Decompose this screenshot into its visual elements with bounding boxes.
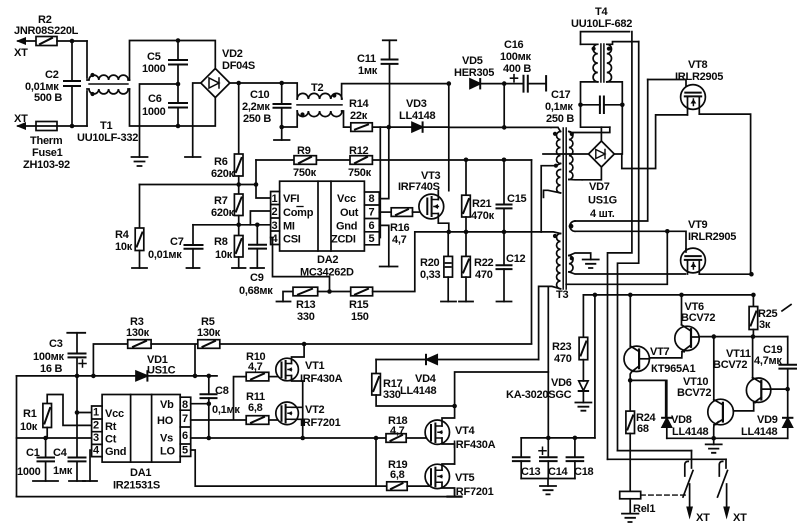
svg-text:C4: C4 [53,447,68,459]
svg-text:4,7: 4,7 [392,234,407,246]
wire VT7 emitter to VD8 [630,380,666,417]
svg-text:T1: T1 [100,120,112,132]
svg-text:Comp: Comp [283,207,314,219]
capacitor C1 [17,438,58,481]
wire Vcc bus to T3 feed [372,159,531,161]
node VT1/VT2 mid on Vs [300,436,305,441]
diode VD3 [399,98,449,132]
resistor R10 [246,351,281,381]
svg-text:UU10LF-682: UU10LF-682 [571,18,632,30]
rectifier bridge VD2 [201,48,255,98]
svg-text:Fuse1: Fuse1 [32,147,63,159]
svg-text:US1C: US1C [147,365,176,377]
capacitor C10 [242,81,291,140]
wire T4 right-bottom to VD7 right vertex [614,105,622,154]
svg-text:DA2: DA2 [317,254,338,266]
capacitor C6 [142,84,187,126]
resistor R17 [372,360,455,407]
svg-text:IRF430A: IRF430A [453,439,496,451]
wire pin4 Gnd [90,450,92,481]
wire pin8 Vcc riser [379,127,389,199]
svg-text:LL4148: LL4148 [400,385,437,397]
wire R5 to half-bridge top line [220,343,532,345]
svg-text:UU10LF-332: UU10LF-332 [77,132,138,144]
svg-text:250 В: 250 В [243,113,271,125]
transistor VT9 MOSFET [681,219,737,274]
wire source node line [449,231,541,233]
svg-text:470: 470 [475,269,493,281]
svg-text:LL4148: LL4148 [672,426,709,438]
svg-text:330: 330 [297,311,315,323]
node C6 bottom [176,124,181,129]
svg-text:C14: C14 [548,466,569,478]
svg-text:1мк: 1мк [53,465,73,477]
wire pin6 Vs line [191,437,386,439]
node bottom-left junction [70,124,75,129]
svg-text:1000: 1000 [142,106,166,118]
svg-text:VD5: VD5 [462,55,483,67]
resistor R22 [459,232,494,302]
wire pin2 Comp [250,211,270,225]
svg-text:T4: T4 [595,6,608,18]
node L1 feed [502,125,507,130]
svg-text:4,7мк: 4,7мк [754,355,782,367]
svg-text:R12: R12 [349,145,369,157]
rail from T4 mid down to VT6 base [608,32,632,460]
svg-text:VD7: VD7 [589,181,610,193]
wire bridge minus left vertex down to chassis [193,83,201,157]
wire riser cap bank [594,295,596,438]
fuse Fuse1 [23,122,70,172]
wire riser to R3/R5 junction [151,344,198,376]
svg-text:DA1: DA1 [130,467,151,479]
svg-text:2,2мк: 2,2мк [242,101,270,113]
svg-text:IRF430A: IRF430A [300,373,343,385]
wire T4 left-bottom to VD7 top [581,105,610,127]
node R25 bottom / VT11 collector [751,334,756,339]
ground earth symbol left [132,157,148,166]
svg-text:DF04S: DF04S [222,60,255,72]
ground earth T3 [583,260,599,269]
svg-text:HO: HO [157,415,174,427]
node MI line R7/R8 [236,223,241,228]
wire R14 to VD3 node [372,126,412,128]
node gate line junction [665,229,670,234]
switch feed line 2 [608,458,727,460]
wire T1 top right up to bus [130,41,179,81]
svg-text:R4: R4 [115,229,130,241]
resistor R6 [211,83,243,180]
svg-text:10к: 10к [20,421,38,433]
svg-text:100мк: 100мк [500,51,531,63]
wire fuse to T1 [57,125,87,127]
svg-text:Vcc: Vcc [337,193,356,205]
wire pin8 Vb [191,403,209,405]
node Vs/R18 junction [374,436,379,441]
wire VT11 collector riser [752,337,754,379]
transformer T1 common-mode choke [77,73,138,144]
resistor R14 [349,98,372,131]
svg-text:C3: C3 [49,338,63,350]
node top-left junction [70,39,75,44]
resistor R13 [277,287,318,323]
svg-text:500 В: 500 В [34,92,62,104]
node C5 top [176,38,181,43]
svg-text:Rt: Rt [105,421,117,433]
resistor R15 [318,287,373,323]
svg-text:US1G: US1G [588,195,617,207]
svg-text:C10: C10 [250,89,270,101]
svg-text:1000: 1000 [17,466,41,478]
wire VFI feedback line [140,184,257,186]
svg-text:0,68мк: 0,68мк [239,285,273,297]
svg-text:IR21531S: IR21531S [113,480,160,492]
capacitor C3 electrolytic [33,333,86,376]
node VT1 drain [302,342,307,347]
diode VD4 [376,355,538,397]
transistor VT11 BJT [713,348,788,411]
wire top line1 down to T1 [86,41,88,78]
svg-text:IRF740S: IRF740S [398,181,440,193]
svg-text:LO: LO [160,446,175,458]
svg-text:Ct: Ct [105,434,117,446]
svg-text:1: 1 [272,193,278,205]
wire pin1 Vcc [77,376,92,413]
svg-text:6: 6 [182,430,188,442]
wire VT8 right stub to right rail [699,114,750,274]
svg-text:IRF7201: IRF7201 [300,417,341,429]
svg-text:Therm: Therm [30,135,63,147]
node R6 top tap [236,81,241,86]
capacitor C11 [357,40,398,127]
capacitor C8 [201,374,241,438]
resistor R21 [462,158,495,235]
rail line y=294.9 node R25 [751,293,756,298]
IC DA1 IR21531S [92,395,191,492]
diode VD5 [447,55,507,88]
wire pin3 Ct line [17,437,92,439]
svg-text:VT8: VT8 [688,59,708,71]
diode VD8 [662,380,708,438]
svg-text:R7: R7 [214,195,228,207]
wire riser C16 node down to L1 line [503,84,505,128]
svg-text:0,1мк: 0,1мк [212,404,240,416]
wire bus drop to half-bridge line [531,160,533,344]
resistor R24 [626,380,657,491]
node VT4 drain [452,404,457,409]
svg-text:6,8: 6,8 [248,402,263,414]
svg-text:T2: T2 [311,82,323,94]
svg-text:XT: XT [733,512,747,524]
rail collector bus [583,294,753,296]
svg-text:750к: 750к [348,167,372,179]
svg-text:R23: R23 [552,341,572,353]
bottom rail [17,496,462,498]
svg-text:VD9: VD9 [757,414,778,426]
svg-text:C6: C6 [148,93,162,105]
T3 lower tap line to VT9 gate riser [566,231,667,284]
svg-text:XT: XT [14,47,28,59]
svg-text:Gnd: Gnd [105,446,126,458]
svg-text:R8: R8 [214,236,228,248]
svg-text:VT7: VT7 [650,346,670,358]
svg-text:R14: R14 [349,98,370,110]
svg-text:XT: XT [14,113,28,125]
capacitor C18 [567,438,594,479]
svg-text:КТ965А1: КТ965А1 [651,363,696,375]
diode VD1 [136,354,176,381]
cap bank bottom rail + earth [521,478,575,480]
svg-text:5: 5 [182,445,188,457]
svg-text:7: 7 [369,207,375,219]
resistor R8 [214,225,246,268]
capacitor C17 [545,89,625,125]
svg-text:0,33: 0,33 [420,269,441,281]
svg-text:C1: C1 [26,447,40,459]
svg-text:470: 470 [554,353,572,365]
node C18 top [573,436,578,441]
svg-text:T3: T3 [556,289,568,301]
svg-text:HER305: HER305 [454,67,494,79]
wire T2 bottom right to R14 [342,111,351,127]
transistor VT6 BJT [649,293,715,358]
svg-text:330: 330 [383,389,401,401]
wire VD7 bottom vertex to T3 [582,167,601,180]
svg-text:C9: C9 [250,272,264,284]
resistor R7 [211,176,243,225]
wire R2 to junction [57,40,87,42]
wire pin7 HO + riser to R10 [191,377,247,420]
T3 winding L1 [541,127,560,231]
svg-text:3: 3 [93,432,99,444]
svg-text:R1: R1 [23,408,37,420]
svg-text:VT4: VT4 [455,425,476,437]
svg-text:1мк: 1мк [358,65,378,77]
svg-text:VD4: VD4 [415,373,437,385]
svg-text:2: 2 [93,420,99,432]
svg-text:XT: XT [696,512,710,524]
wire C5C6 mid to earth [140,84,179,157]
svg-text:C11: C11 [357,53,376,65]
svg-text:C16: C16 [504,39,524,51]
capacitor C16 electrolytic [500,39,546,92]
rail from T4 right-top down with jog [618,42,639,451]
wire MI line [193,224,271,226]
svg-text:VT1: VT1 [305,360,325,372]
svg-text:LL4148: LL4148 [399,110,436,122]
wire pin4 CSI to R13/R15 [271,238,330,292]
wire emitter ground line [667,437,788,439]
svg-text:16 В: 16 В [40,363,63,375]
transistor VT7 BJT [624,293,696,381]
svg-text:620к: 620к [211,168,235,180]
svg-text:R22: R22 [474,257,494,269]
svg-text:5: 5 [369,233,375,245]
capacitor C9 [239,223,273,298]
resistor R18 [386,415,430,442]
svg-text:CSI: CSI [283,234,301,246]
transistor VT8 MOSFET [648,59,724,115]
svg-text:VD8: VD8 [671,414,692,426]
svg-text:Vcc: Vcc [105,408,124,420]
svg-text:VT5: VT5 [455,472,475,484]
svg-text:C7: C7 [170,236,184,248]
T3 winding R1 [569,127,610,180]
transformer T3 core [563,128,566,289]
svg-text:C17: C17 [551,89,571,101]
svg-text:2: 2 [272,206,278,218]
wire T3 gate winding to VT9 gate [575,231,686,249]
resistor R4 [115,185,147,269]
svg-text:22к: 22к [350,110,368,122]
svg-text:Gnd: Gnd [336,221,357,233]
svg-text:R15: R15 [349,299,369,311]
transistor VT1 MOSFET [276,344,343,438]
capacitor C4 [53,413,86,482]
svg-text:250 В: 250 В [546,113,574,125]
wire pin5 LO run [191,450,387,486]
svg-text:10к: 10к [115,241,133,253]
capacitor C13 [513,438,541,479]
capacitor C15 [497,158,527,235]
svg-text:3к: 3к [759,319,771,331]
T3 winding R2 [569,253,686,274]
relay switch contact 2 [718,459,748,524]
wire VD3 line to T3 L1 top [449,126,551,128]
svg-text:R6: R6 [214,156,228,168]
svg-text:Rel1: Rel1 [633,503,655,515]
transistor VT5 MOSFET [425,464,493,498]
node R13/R15 junction [327,289,332,294]
svg-text:LL4148: LL4148 [741,426,778,438]
node C3 bottom [75,374,80,379]
rectifier bridge VD7 [588,141,617,220]
wire T1 bottom right down to bus [130,89,179,126]
chassis bar under bridge [185,156,201,158]
svg-text:ZH103-92: ZH103-92 [23,159,70,171]
svg-text:100мк: 100мк [33,351,64,363]
IC DA2 MC34262D [271,181,380,278]
capacitor C2 [25,41,80,126]
transistor VT4 MOSFET [425,406,495,464]
svg-text:Vs: Vs [160,433,173,445]
resistor R3 [93,316,151,376]
node riser to cap bank [593,293,598,298]
resistor R9 [256,145,317,179]
relay switch contact 1 [683,451,710,524]
wire R15 to VT3 source node [373,232,449,292]
T3 gate winding loop [570,221,575,231]
capacitor C7 [148,225,203,268]
Vcc rail with VD1 [17,375,137,377]
node C14 top [546,436,551,441]
capacitor C12 [497,232,526,302]
svg-text:VD2: VD2 [222,48,243,60]
base collector bus y=336.6 [699,336,788,338]
svg-text:Out: Out [340,207,359,219]
wire R14 branch down to pin5 ZCDI [379,127,381,237]
resistor R25 [749,295,791,337]
node VD3 anode [387,125,392,130]
svg-text:R20: R20 [420,257,440,269]
svg-text:VD3: VD3 [406,98,427,110]
node R3 riser [91,374,96,379]
wire VD1 cathode rail [147,375,217,377]
wire line2 up to T1 bottom winding [86,91,88,126]
diode VD9 [741,389,792,438]
relay actuation dashed link [641,494,686,496]
node Ct / R1 / C1 [43,436,48,441]
svg-text:1: 1 [93,407,99,419]
transformer T2 [282,82,342,127]
svg-text:0,01мк: 0,01мк [148,249,182,261]
wire bus top to bridge [178,41,215,70]
svg-text:R16: R16 [390,222,410,234]
svg-text:VD6: VD6 [551,377,572,389]
capacitor C14 electrolytic [539,438,569,479]
svg-text:R13: R13 [296,299,316,311]
wire riser VD5 anode to VT3 drain [448,84,450,191]
svg-text:IRLR2905: IRLR2905 [675,71,723,83]
svg-text:ZCDI: ZCDI [331,234,356,246]
svg-text:C13: C13 [521,466,541,478]
svg-text:400 В: 400 В [503,63,531,75]
svg-text:130к: 130к [197,327,221,339]
svg-text:BCV72: BCV72 [681,312,715,324]
svg-text:VT9: VT9 [688,219,708,231]
svg-text:R21: R21 [472,198,492,210]
resistor R19 [387,459,430,490]
svg-text:8: 8 [369,193,375,205]
svg-text:C12: C12 [506,253,526,265]
node VT3 source [447,230,452,235]
wire riser Vs to LO line [375,438,377,486]
wire VT9 right stub to node [699,273,751,275]
svg-text:C18: C18 [574,466,594,478]
node R3/R5 riser [193,374,198,379]
resistor R20 [420,232,456,302]
T3 winding L3 [541,232,568,438]
wire Vcc bus left end down to pin1 [256,160,271,198]
resistor R5 [197,316,221,348]
resistor R12 [316,145,372,179]
svg-text:4,7: 4,7 [390,425,405,437]
svg-text:620к: 620к [211,207,235,219]
wire VD4 line staple to R23 node [539,286,549,359]
wire bridge plus to C10 [230,82,282,84]
svg-text:150: 150 [351,311,369,323]
left rail [16,376,18,497]
svg-text:VFI: VFI [283,193,300,205]
transistor VT2 MOSFET [276,402,341,429]
resistor R1 [20,395,92,439]
ground earth VT10 [713,438,715,444]
node VT7 emitter [628,378,633,383]
svg-text:VT2: VT2 [305,404,325,416]
node VT10 collector riser [712,334,717,339]
node C19 bottom / VD9 [785,387,790,392]
wire VD7 top riser [600,127,602,141]
transistor VT10 BJT [677,376,733,438]
switch feed line 1 [618,450,692,452]
node R6/R7 divider tap [236,182,241,187]
svg-text:R9: R9 [297,145,311,157]
transformer T4 [571,6,639,105]
svg-text:IRLR2905: IRLR2905 [688,231,736,243]
svg-text:C15: C15 [507,193,527,205]
transistor VT3 MOSFET [398,170,449,232]
terminal XT bottom with arrow [14,113,36,130]
